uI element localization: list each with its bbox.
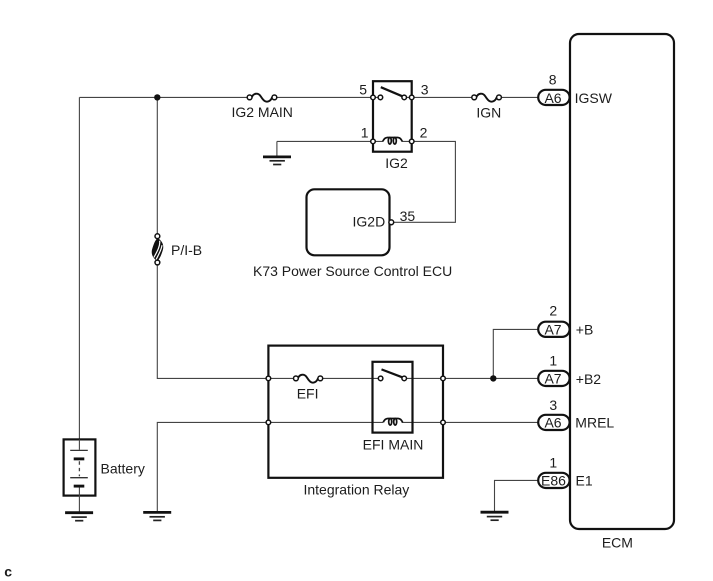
connector A7 pin 1 (+B2) (538, 371, 569, 386)
svg-text:5: 5 (359, 82, 367, 98)
ground: MREL row ground (143, 512, 171, 520)
svg-text:P/I-B: P/I-B (171, 242, 202, 258)
svg-text:ECM: ECM (602, 535, 633, 551)
svg-text:E1: E1 (576, 472, 593, 488)
battery B1 (64, 439, 96, 512)
ECM box (570, 34, 674, 529)
Integration Relay pin circles on box edges (266, 376, 445, 425)
relay IG2 coil (pins 1,2) (371, 138, 414, 145)
svg-text:IG2D: IG2D (353, 214, 386, 230)
relay EFI MAIN switch blade and contacts (378, 369, 406, 380)
ground: battery ground (65, 513, 93, 521)
fuse IG2 MAIN (247, 94, 277, 102)
connector A6 pin 8 (IGSW) (538, 90, 569, 105)
svg-text:3: 3 (421, 82, 429, 98)
wire: IG2 relay pin 3 to IGN fuse (404, 96, 474, 98)
svg-text:A7: A7 (544, 370, 561, 386)
relay EFI MAIN coil (383, 419, 402, 426)
pin 35 of K73 (389, 220, 394, 225)
svg-text:1: 1 (361, 125, 369, 141)
svg-text:IGSW: IGSW (575, 90, 613, 106)
ground: IG2 relay coil ground (263, 157, 291, 165)
wire: MREL coil row from ground up and through relay to ECM A6 (MREL) (157, 422, 538, 512)
svg-text:A7: A7 (544, 322, 561, 338)
connector E86 pin 1 (E1) (538, 473, 569, 488)
svg-text:1: 1 (549, 353, 557, 369)
wire: EFI MAIN switch to ECM connector A7 (+B2) (404, 377, 538, 379)
svg-text:K73 Power Source Control ECU: K73 Power Source Control ECU (253, 263, 452, 279)
relay IG2 switch blade and contacts (pins 5,3) (371, 87, 414, 100)
wire: IGN fuse to ECM connector A6 (IGSW) (499, 96, 539, 98)
wire: battery feed top horizontal run (79, 96, 250, 98)
svg-text:EFI MAIN: EFI MAIN (363, 437, 424, 453)
svg-text:3: 3 (549, 397, 557, 413)
connector A6 pin 3 (MREL) (538, 415, 569, 430)
wire: IG2 relay pin 2 right then down to K73 pin 35 (394, 141, 456, 222)
svg-text:IG2 MAIN: IG2 MAIN (231, 104, 292, 120)
svg-text:IG2: IG2 (385, 155, 408, 171)
K73 Power Source Control ECU box (307, 189, 390, 255)
svg-text:Battery: Battery (101, 461, 145, 477)
wire: EFI fuse to EFI MAIN switch (320, 377, 380, 379)
node: junction dot on top wire (154, 94, 160, 100)
fuse EFI (294, 375, 323, 383)
connector A7 pin 2 (+B) (538, 322, 569, 337)
svg-text:1: 1 (549, 455, 557, 471)
Integration Relay box (268, 346, 443, 478)
svg-text:+B2: +B2 (576, 371, 602, 387)
svg-text:8: 8 (549, 72, 557, 88)
relay IG2 box (373, 81, 412, 152)
svg-text:2: 2 (420, 125, 428, 141)
svg-text:A6: A6 (544, 90, 561, 106)
node: junction dot on +B2 wire (490, 375, 496, 381)
fuse IGN (472, 94, 502, 102)
svg-text:A6: A6 (544, 414, 561, 430)
svg-text:MREL: MREL (575, 414, 614, 430)
wire: E1 from ECM E86 connector left and down to ground (495, 480, 539, 511)
svg-text:c: c (4, 564, 12, 580)
svg-text:IGN: IGN (476, 105, 501, 121)
noise filter P/I-B on battery feed (152, 234, 164, 265)
wire: +B branch from +B2 node up to ECM A7 (+B) (493, 329, 538, 378)
wire: vertical through P/I-B then right into Integration Relay (EFI row) (157, 97, 296, 378)
wire: IG2 MAIN fuse to IG2 relay pin 5 (274, 96, 380, 98)
svg-text:+B: +B (576, 322, 594, 338)
wire: left vertical from top run down to battery (78, 97, 80, 439)
svg-text:35: 35 (400, 208, 416, 224)
svg-text:Integration Relay: Integration Relay (303, 482, 409, 498)
wire: IG2 coil row left segment toward ground (277, 141, 383, 157)
ground: E1 ground (481, 512, 509, 520)
svg-text:2: 2 (549, 303, 557, 319)
relay EFI MAIN box (373, 362, 413, 433)
svg-text:EFI: EFI (297, 386, 319, 402)
svg-text:E86: E86 (541, 472, 566, 488)
